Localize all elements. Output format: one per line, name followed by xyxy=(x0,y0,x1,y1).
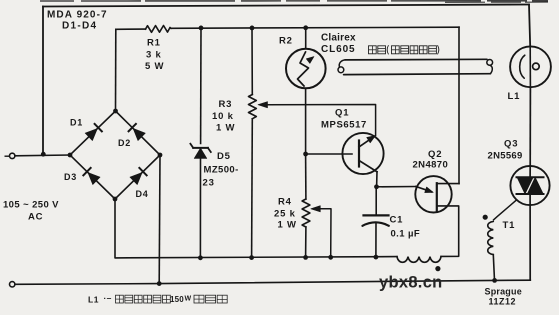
svg-text:Q3: Q3 xyxy=(504,139,518,150)
svg-text:1 W: 1 W xyxy=(216,123,235,134)
svg-text:MZ500-: MZ500- xyxy=(204,165,239,176)
svg-text:D1-D4: D1-D4 xyxy=(62,21,97,32)
svg-text:R2: R2 xyxy=(279,36,293,47)
svg-text:W: W xyxy=(185,296,192,303)
svg-text:R4: R4 xyxy=(278,197,292,208)
svg-text:T1: T1 xyxy=(503,220,516,231)
svg-text:L1: L1 xyxy=(508,91,521,102)
svg-text:D1: D1 xyxy=(70,118,83,128)
svg-text:D3: D3 xyxy=(64,172,77,182)
wire node to Q2 emitter xyxy=(377,186,416,188)
wire Q1 base xyxy=(306,153,352,155)
bridge rectifier MDA920-7 outline xyxy=(70,111,160,199)
wire Q3 MT1 down to AC neutral xyxy=(529,194,531,280)
wire DC+ drop to Q2 base2 xyxy=(458,27,460,183)
junction D5 top xyxy=(199,26,204,31)
tube (see text) xyxy=(345,58,487,61)
zener diode D5 MZ500-23 xyxy=(194,148,207,158)
T1 secondary polarity dot xyxy=(483,215,488,220)
wire R3 bottom to bus xyxy=(251,119,254,258)
svg-text:11Z12: 11Z12 xyxy=(489,297,517,307)
wire T1 secondary bottom to AC neutral xyxy=(493,255,494,281)
resistor R1 3k 5W xyxy=(146,26,172,33)
wire top rail xyxy=(43,5,529,7)
svg-text:Sprague: Sprague xyxy=(485,287,522,297)
junction T1 secondary on AC neutral xyxy=(492,278,497,283)
transformer T1 secondary winding xyxy=(488,221,494,254)
svg-text:·–: ·– xyxy=(104,293,112,303)
wire L1 to Q3 xyxy=(529,87,531,166)
transformer T1 primary winding xyxy=(397,257,441,263)
wire negative bus xyxy=(115,199,397,258)
svg-text:MPS6517: MPS6517 xyxy=(321,120,367,131)
terminal AC line 2 xyxy=(10,282,15,287)
wire AC hot to bridge left node xyxy=(15,154,70,157)
svg-text:2N5569: 2N5569 xyxy=(488,151,523,162)
junction R2 top xyxy=(303,25,308,30)
diode D3 xyxy=(88,173,100,185)
junction R3 on bus xyxy=(249,255,254,260)
svg-text:5 W: 5 W xyxy=(145,61,164,72)
junction R4 on bus xyxy=(303,255,308,260)
wire AC neutral bottom xyxy=(15,280,530,284)
wire R3 branch top xyxy=(251,28,253,95)
svg-text:R1: R1 xyxy=(147,38,161,49)
wire DC+ rail with R1 xyxy=(116,28,146,30)
label tube note (Chinese) xyxy=(369,46,377,54)
svg-text:150: 150 xyxy=(170,295,184,304)
wire Q2 base1 to T1 primary xyxy=(437,206,459,257)
wire node down to C1 xyxy=(375,187,377,215)
svg-text:Q2: Q2 xyxy=(428,149,442,160)
svg-text:D4: D4 xyxy=(136,189,149,199)
junction bridge right node xyxy=(158,153,163,158)
wire D5 bottom to bus xyxy=(199,158,201,257)
wire down to R4 xyxy=(305,154,307,199)
svg-text:ybx8.cn: ybx8.cn xyxy=(379,274,443,292)
junction bridge left node xyxy=(68,153,73,158)
svg-text:105 ~ 250 V: 105 ~ 250 V xyxy=(3,200,59,211)
wire R2 bottom down to Q1 base node xyxy=(305,88,307,154)
potentiometer R3 10k 1W xyxy=(249,95,257,119)
svg-text:AC: AC xyxy=(28,212,43,223)
svg-text:C1: C1 xyxy=(390,215,404,226)
svg-text:1 W: 1 W xyxy=(278,220,297,231)
potentiometer R4 25k 1W xyxy=(302,199,310,227)
wire top rail down to L1 xyxy=(529,5,530,47)
svg-text:25 k: 25 k xyxy=(274,209,296,220)
svg-text:R3: R3 xyxy=(219,99,233,110)
junction R3 top xyxy=(250,26,255,31)
lamp L1 xyxy=(510,46,551,87)
svg-text:23: 23 xyxy=(203,178,215,189)
wire Q1 emitter down to node xyxy=(376,172,378,187)
wire DC+ rail continues to Q2 b2 drop xyxy=(171,27,459,28)
diode D1 xyxy=(85,129,97,141)
wire D5 branch top xyxy=(200,28,202,144)
svg-text:0.1 µF: 0.1 µF xyxy=(391,229,421,240)
wire Q3 gate to T1 secondary xyxy=(494,201,516,220)
R3 wiper arm to Q1 collector line xyxy=(258,102,268,108)
svg-text:Q1: Q1 xyxy=(335,108,349,119)
svg-text:CL605: CL605 xyxy=(321,44,356,55)
junction AC hot / top-rail branch xyxy=(41,152,46,157)
junction Q1 emitter / C1 / Q2 emitter xyxy=(374,184,379,189)
transistor Q1 MPS6517 xyxy=(342,133,383,174)
junction bridge bottom node xyxy=(113,197,118,202)
junction D5 on bus xyxy=(198,255,203,260)
transistor Q2 2N4870 UJT xyxy=(415,176,451,212)
terminal AC line 1 xyxy=(5,155,10,157)
capacitor C1 0.1uF xyxy=(364,214,389,216)
svg-text:10 k: 10 k xyxy=(212,111,234,122)
junction Q1 base tap xyxy=(303,152,308,157)
triac Q3 2N5569 xyxy=(510,166,549,205)
junction bridge top node xyxy=(113,109,118,114)
wire bridge right node to AC neutral xyxy=(158,155,161,284)
wire C1 bottom to bus xyxy=(375,223,377,258)
junction bridge right on AC neutral xyxy=(157,281,162,286)
diode D4 xyxy=(130,173,142,185)
photocell R2 Clairex CL605 xyxy=(305,28,307,49)
wire R4 bottom to bus xyxy=(305,227,307,257)
svg-text:Clairex: Clairex xyxy=(321,33,356,44)
svg-text:D5: D5 xyxy=(217,151,231,162)
wire Q2 base2 xyxy=(437,183,459,185)
svg-text:MDA 920-7: MDA 920-7 xyxy=(47,10,108,21)
junction C1 on bus xyxy=(374,255,379,260)
T1 primary polarity dot xyxy=(435,266,440,271)
svg-text:2N4870: 2N4870 xyxy=(413,160,449,171)
scan artifact top edge xyxy=(40,0,548,2)
wire bridge top node up to R1 wire xyxy=(115,29,117,111)
svg-text:L1: L1 xyxy=(88,295,99,305)
svg-text:D2: D2 xyxy=(118,138,131,148)
R4 wiper arm xyxy=(311,206,321,212)
diode D2 xyxy=(133,128,145,140)
wire left vertical from top rail xyxy=(42,7,44,156)
junction R4 wiper on bus xyxy=(328,255,333,260)
svg-text:3 k: 3 k xyxy=(146,50,162,61)
